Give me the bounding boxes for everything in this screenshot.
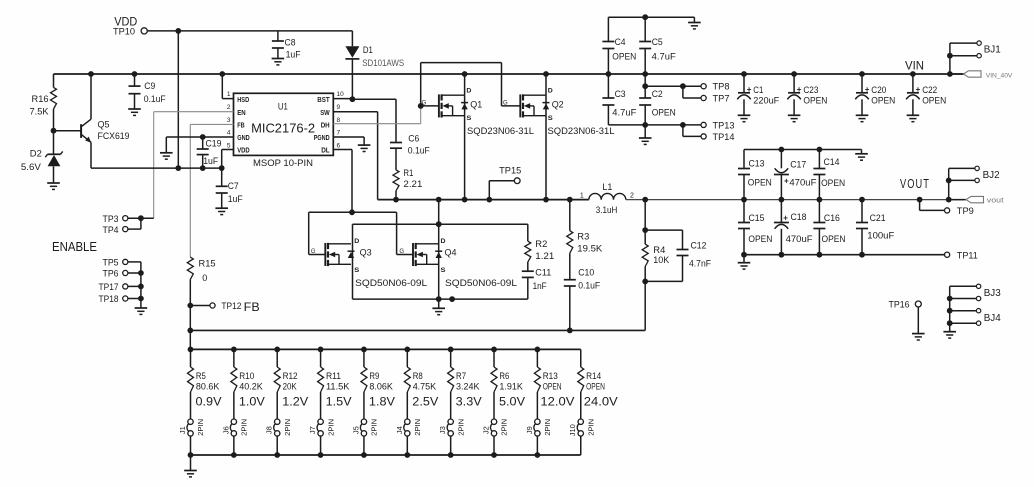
- capacitor C18 470uF: [774, 200, 813, 255]
- svg-text:J2: J2: [482, 426, 491, 434]
- svg-text:100uF: 100uF: [867, 231, 895, 241]
- svg-text:1uF: 1uF: [203, 156, 218, 166]
- resistor R4: [642, 200, 669, 285]
- svg-text:D: D: [548, 87, 553, 94]
- ground (Q3/Q4 source): [432, 299, 445, 315]
- svg-text:C13: C13: [749, 158, 765, 168]
- svg-text:R2: R2: [535, 239, 547, 249]
- test point TP11: [945, 250, 978, 260]
- svg-text:1.0V: 1.0V: [239, 394, 265, 408]
- svg-text:Q3: Q3: [360, 247, 372, 257]
- ground (output bus): [738, 263, 751, 269]
- test point TP6: [103, 269, 128, 279]
- svg-text:J6: J6: [221, 426, 230, 434]
- svg-text:10: 10: [337, 91, 345, 98]
- svg-text:BJ2: BJ2: [983, 170, 1000, 181]
- svg-text:R3: R3: [577, 232, 589, 242]
- svg-text:R5: R5: [196, 371, 206, 381]
- capacitor C9: [129, 74, 167, 109]
- svg-text:12.0V: 12.0V: [540, 394, 574, 408]
- wire source bus: [353, 296, 528, 302]
- svg-text:R12: R12: [283, 371, 298, 381]
- svg-text:7.5K: 7.5K: [30, 107, 49, 117]
- capacitor C17 470uF: [774, 150, 817, 200]
- wire FB rail: [187, 281, 645, 333]
- svg-text:OPEN: OPEN: [612, 52, 636, 62]
- svg-text:R16: R16: [32, 94, 49, 104]
- svg-text:4: 4: [227, 130, 231, 137]
- svg-text:220uF: 220uF: [753, 95, 779, 105]
- wire pin5 VDD: [222, 150, 234, 169]
- svg-text:C19: C19: [206, 139, 222, 149]
- svg-text:C10: C10: [578, 267, 594, 277]
- svg-text:FB: FB: [237, 122, 245, 129]
- jumper J6 2PIN: [221, 419, 248, 455]
- svg-text:J9: J9: [525, 426, 534, 434]
- svg-text:2PIN: 2PIN: [586, 419, 595, 436]
- jumper J7 2PIN: [308, 419, 335, 455]
- test point TP18: [99, 294, 128, 304]
- svg-text:TP4: TP4: [103, 225, 119, 235]
- ground (TP16): [912, 334, 925, 340]
- svg-text:Q1: Q1: [470, 100, 482, 110]
- resistor R6: [491, 349, 523, 419]
- test point TP15: [489, 166, 521, 200]
- svg-text:C2: C2: [652, 89, 663, 99]
- svg-text:C7: C7: [228, 181, 239, 191]
- svg-text:FCX619: FCX619: [98, 131, 130, 141]
- svg-text:7: 7: [337, 130, 341, 137]
- svg-text:9: 9: [337, 104, 341, 111]
- transistor Q1 SQD23N06-31L: [422, 74, 534, 200]
- svg-text:TP14: TP14: [713, 132, 735, 142]
- wire VDD node (Q5 emitter): [91, 165, 225, 171]
- jumper J9 2PIN: [525, 419, 552, 455]
- svg-text:TP13: TP13: [713, 120, 735, 130]
- jumper J3 2PIN: [438, 419, 465, 455]
- svg-text:TP7: TP7: [713, 94, 730, 104]
- svg-text:D: D: [354, 238, 359, 245]
- pin numbers U1: [227, 91, 344, 149]
- svg-text:OPEN: OPEN: [871, 95, 895, 105]
- IC U1 MIC2176-2 controller: [234, 93, 334, 169]
- svg-text:C1: C1: [753, 85, 763, 95]
- wire ladder bottom bus: [188, 452, 581, 458]
- svg-text:1.2V: 1.2V: [282, 394, 308, 408]
- svg-text:S: S: [441, 267, 447, 274]
- svg-text:470uF: 470uF: [789, 177, 817, 187]
- svg-text:C15: C15: [749, 213, 765, 223]
- svg-text:SW: SW: [320, 110, 330, 117]
- svg-text:vout: vout: [987, 197, 1004, 204]
- svg-text:1: 1: [580, 193, 584, 200]
- svg-text:2PIN: 2PIN: [370, 419, 379, 436]
- svg-text:1: 1: [227, 91, 231, 98]
- svg-text:D: D: [466, 87, 471, 94]
- svg-text:C14: C14: [824, 157, 840, 167]
- capacitor C5: [639, 17, 676, 74]
- svg-text:C17: C17: [790, 160, 806, 170]
- ground (output top bus): [855, 154, 868, 160]
- svg-text:OPEN: OPEN: [748, 234, 772, 244]
- svg-text:BJ1: BJ1: [984, 45, 1001, 56]
- inductor L1 3.1uH: [580, 182, 634, 216]
- resistor R5: [188, 349, 220, 419]
- capacitor C13: [738, 150, 772, 200]
- svg-text:TP8: TP8: [713, 82, 730, 92]
- svg-text:HSD: HSD: [237, 97, 249, 104]
- svg-text:U1: U1: [278, 102, 288, 112]
- svg-text:3.1uH: 3.1uH: [596, 205, 618, 216]
- wire TP3/TP4 to EN: [128, 215, 154, 229]
- wire VOUT rail: [626, 197, 964, 203]
- svg-text:0.1uF: 0.1uF: [144, 94, 166, 104]
- capacitor C12: [645, 230, 711, 281]
- capacitor C20 OPEN: [855, 74, 895, 122]
- svg-text:C11: C11: [535, 268, 551, 278]
- wire pin9 SW: [333, 112, 377, 200]
- svg-text:2PIN: 2PIN: [240, 419, 249, 436]
- capacitor C1 220uF: [737, 74, 780, 122]
- resistor R8: [404, 349, 436, 419]
- svg-text:2PIN: 2PIN: [456, 419, 465, 436]
- svg-text:VOUT: VOUT: [900, 176, 930, 191]
- svg-text:OPEN: OPEN: [922, 95, 946, 105]
- capacitor C11: [522, 268, 552, 300]
- svg-text:BJ3: BJ3: [984, 288, 1001, 299]
- svg-text:MSOP 10-PIN: MSOP 10-PIN: [253, 158, 313, 169]
- svg-text:R6: R6: [499, 371, 509, 381]
- svg-text:8: 8: [337, 117, 341, 124]
- svg-text:2PIN: 2PIN: [196, 419, 205, 436]
- svg-text:BJ4: BJ4: [984, 313, 1001, 324]
- capacitor C10: [564, 267, 601, 330]
- svg-text:C4: C4: [615, 37, 626, 47]
- wire VDD rail: [147, 28, 352, 168]
- ground (BJ3/BJ4): [943, 332, 956, 338]
- svg-text:DL: DL: [321, 148, 330, 155]
- wire pin8 DH to gates: [333, 106, 420, 124]
- svg-text:+: +: [783, 214, 788, 223]
- svg-text:OPEN: OPEN: [748, 177, 772, 187]
- resistor R3: [567, 200, 603, 280]
- ground (ladder): [184, 455, 197, 477]
- wire BST to C6: [352, 99, 396, 142]
- wire TP5/6/17/18 chain: [128, 262, 144, 308]
- svg-text:TP3: TP3: [103, 214, 119, 224]
- capacitor C19: [197, 137, 222, 168]
- svg-text:J7: J7: [308, 426, 317, 434]
- connector BJ3: [947, 284, 1001, 301]
- transistor Q4 SQD50N06-09L: [399, 200, 517, 300]
- svg-text:C21: C21: [870, 213, 886, 223]
- svg-text:2PIN: 2PIN: [543, 419, 552, 436]
- svg-text:2PIN: 2PIN: [283, 419, 292, 436]
- svg-text:2.21: 2.21: [403, 179, 422, 189]
- svg-text:TP17: TP17: [99, 282, 119, 292]
- svg-text:2PIN: 2PIN: [500, 419, 509, 436]
- svg-text:SQD50N06-09L: SQD50N06-09L: [445, 278, 517, 289]
- capacitor C7: [216, 168, 243, 208]
- ground (pin7 PGND): [333, 137, 370, 152]
- svg-text:2.5V: 2.5V: [412, 394, 438, 408]
- test point TP7: [701, 94, 730, 104]
- zener diode D2 5.6V: [21, 131, 63, 183]
- wire ladder top bus: [188, 347, 581, 353]
- wire pin6 DL to gates: [333, 150, 352, 213]
- svg-text:R9: R9: [369, 371, 379, 381]
- svg-text:10K: 10K: [653, 255, 669, 265]
- svg-text:1.21: 1.21: [535, 251, 554, 261]
- svg-text:R1: R1: [403, 168, 413, 178]
- svg-text:TP16: TP16: [889, 299, 910, 309]
- ground (C8): [272, 59, 285, 65]
- wire output ground bus: [741, 252, 944, 263]
- svg-text:G: G: [311, 249, 316, 255]
- svg-text:J8: J8: [265, 426, 274, 434]
- jumper J4 2PIN: [395, 419, 422, 455]
- test point TP13: [701, 120, 735, 130]
- junction (R16/D2/Q5 base): [51, 128, 57, 134]
- svg-text:+: +: [747, 85, 752, 94]
- svg-text:OPEN: OPEN: [822, 234, 846, 244]
- wire C13/C17/C14 ground bus: [744, 147, 862, 154]
- svg-text:OPEN: OPEN: [586, 381, 605, 391]
- svg-text:2PIN: 2PIN: [413, 419, 422, 436]
- wire VIN rail: [54, 73, 964, 75]
- wire FB node down: [189, 306, 191, 350]
- wire C4/C5 ground bus: [608, 14, 694, 22]
- diode D1 SD101AWS: [345, 31, 404, 99]
- svg-text:4.7uF: 4.7uF: [652, 52, 677, 62]
- wire drain bus: [353, 221, 528, 227]
- svg-text:19.5K: 19.5K: [577, 243, 602, 253]
- net tag VIN_40V: [950, 71, 1013, 80]
- test point TP9: [920, 200, 974, 216]
- wire pin2 EN: [154, 112, 234, 219]
- jumper J2 2PIN: [482, 419, 509, 455]
- svg-text:D2: D2: [30, 149, 42, 159]
- svg-text:24.0V: 24.0V: [584, 394, 618, 408]
- resistor R15: [187, 257, 215, 305]
- svg-text:TP18: TP18: [99, 294, 119, 304]
- svg-text:5.0V: 5.0V: [499, 394, 525, 408]
- resistor R2: [525, 224, 555, 271]
- svg-text:0.9V: 0.9V: [196, 394, 222, 408]
- svg-text:C9: C9: [144, 81, 155, 91]
- svg-text:G: G: [399, 249, 404, 255]
- test point TP10: [113, 26, 147, 36]
- jumper J8 2PIN: [265, 419, 292, 455]
- jumper J1 2PIN: [178, 419, 205, 455]
- svg-text:80.6K: 80.6K: [196, 381, 220, 391]
- svg-text:G: G: [422, 100, 427, 106]
- svg-text:OPEN: OPEN: [652, 108, 676, 118]
- capacitor C6: [390, 133, 430, 170]
- svg-text:4.7uF: 4.7uF: [612, 108, 637, 118]
- wire SW node rail: [378, 197, 589, 203]
- svg-text:PGND: PGND: [314, 135, 330, 142]
- svg-text:1uF: 1uF: [286, 50, 301, 60]
- svg-text:8.06K: 8.06K: [369, 381, 393, 391]
- connector BJ2: [946, 166, 1000, 199]
- svg-text:MIC2176-2: MIC2176-2: [251, 122, 315, 136]
- svg-text:R10: R10: [239, 371, 254, 381]
- capacitor C16: [813, 200, 845, 255]
- svg-text:C22: C22: [922, 85, 937, 95]
- svg-text:SQD23N06-31L: SQD23N06-31L: [548, 126, 615, 137]
- jumper J10 2PIN: [568, 419, 595, 455]
- wire pin3 FB: [190, 124, 233, 257]
- test point TP17: [99, 282, 128, 292]
- wire TP13/TP14 tap: [608, 122, 701, 136]
- svg-text:J5: J5: [351, 426, 360, 434]
- test point TP8: [701, 82, 730, 92]
- resistor R11: [318, 349, 350, 419]
- svg-text:DH: DH: [321, 122, 330, 129]
- svg-text:C23: C23: [803, 85, 818, 95]
- svg-text:SD101AWS: SD101AWS: [362, 58, 404, 68]
- svg-text:R13: R13: [543, 371, 558, 381]
- test point TP14: [701, 132, 735, 142]
- svg-text:Q2: Q2: [552, 100, 564, 110]
- resistor R13: [534, 349, 561, 419]
- svg-text:OPEN: OPEN: [821, 178, 845, 188]
- svg-text:D1: D1: [363, 45, 373, 55]
- svg-text:2: 2: [227, 104, 231, 111]
- svg-text:EN: EN: [237, 110, 246, 117]
- svg-text:+: +: [916, 85, 921, 94]
- ground (pin4 GND): [160, 137, 173, 159]
- svg-text:R7: R7: [456, 371, 466, 381]
- resistor R16: [30, 74, 57, 131]
- test point TP16: [889, 299, 922, 333]
- test point TP4: [103, 225, 128, 235]
- svg-text:VIN: VIN: [905, 58, 924, 72]
- wire pin1 HSD to VIN: [222, 74, 233, 99]
- svg-text:TP9: TP9: [957, 206, 974, 216]
- net tag vout: [949, 196, 1004, 204]
- svg-text:TP10: TP10: [113, 26, 135, 36]
- ground (C2/C3): [639, 125, 652, 144]
- ground (C9): [128, 109, 141, 115]
- svg-text:5: 5: [227, 142, 231, 149]
- ground (C7): [215, 208, 228, 214]
- resistor R9: [361, 349, 393, 419]
- capacitor C14: [813, 150, 845, 200]
- capacitor C22 OPEN: [906, 74, 946, 122]
- ground (C4/C5 bus): [688, 23, 701, 29]
- svg-text:R4: R4: [653, 245, 665, 255]
- svg-text:4.7nF: 4.7nF: [689, 258, 711, 268]
- capacitor C15: [738, 200, 772, 255]
- svg-text:VDD: VDD: [237, 148, 250, 155]
- junction BST node: [333, 96, 355, 102]
- svg-text:1nF: 1nF: [533, 281, 547, 291]
- svg-text:C6: C6: [408, 133, 419, 143]
- svg-text:0.1uF: 0.1uF: [578, 281, 600, 291]
- svg-text:SQD50N06-09L: SQD50N06-09L: [355, 278, 427, 289]
- svg-text:1uF: 1uF: [228, 194, 243, 204]
- resistor R14: [578, 349, 605, 419]
- svg-text:2: 2: [630, 193, 634, 200]
- svg-text:4.75K: 4.75K: [413, 381, 437, 391]
- svg-text:TP15: TP15: [499, 166, 521, 176]
- resistor R12: [274, 349, 297, 419]
- svg-text:ENABLE: ENABLE: [52, 239, 97, 254]
- svg-text:+: +: [865, 85, 870, 94]
- svg-text:D: D: [441, 238, 446, 245]
- svg-text:1.91K: 1.91K: [499, 381, 523, 391]
- svg-text:C3: C3: [615, 89, 626, 99]
- svg-text:Q5: Q5: [98, 119, 110, 129]
- capacitor C2: [639, 74, 676, 125]
- wire gate jump Q1-Q2: [418, 63, 520, 109]
- svg-text:3.3V: 3.3V: [456, 394, 482, 408]
- test point TP5: [103, 258, 128, 268]
- svg-text:BST: BST: [317, 97, 330, 104]
- svg-text:C12: C12: [691, 240, 707, 250]
- svg-text:GND: GND: [237, 135, 250, 142]
- svg-text:R14: R14: [586, 371, 601, 381]
- svg-text:TP5: TP5: [103, 258, 119, 268]
- transistor Q5 FCX619: [54, 74, 130, 168]
- svg-text:S: S: [466, 115, 472, 122]
- connector BJ4: [947, 299, 1001, 332]
- svg-text:2PIN: 2PIN: [326, 419, 335, 436]
- svg-text:6: 6: [337, 142, 341, 149]
- svg-text:3.24K: 3.24K: [456, 381, 480, 391]
- svg-text:C5: C5: [652, 37, 663, 47]
- capacitor C4: [602, 17, 636, 74]
- ground (D2): [47, 183, 60, 189]
- svg-text:1.5V: 1.5V: [326, 394, 352, 408]
- svg-text:5.6V: 5.6V: [21, 162, 41, 172]
- test point TP3: [103, 214, 128, 224]
- svg-text:+: +: [784, 176, 789, 185]
- svg-text:3: 3: [227, 117, 231, 124]
- transistor Q2 SQD23N06-31L: [503, 74, 614, 200]
- svg-text:G: G: [503, 100, 508, 106]
- resistor R1: [393, 168, 422, 200]
- svg-text:J3: J3: [438, 426, 447, 434]
- wire DL gate run: [309, 209, 413, 254]
- wire TP8/TP7 tap: [645, 83, 701, 98]
- svg-text:S: S: [354, 267, 360, 274]
- svg-text:0.1uF: 0.1uF: [408, 146, 430, 156]
- svg-text:C8: C8: [285, 38, 296, 48]
- ground (TP18): [135, 308, 148, 314]
- svg-text:+: +: [797, 85, 802, 94]
- svg-text:TP12: TP12: [221, 301, 241, 311]
- svg-text:VIN_40V: VIN_40V: [986, 72, 1013, 79]
- wire Q1 gate: [421, 105, 439, 107]
- svg-text:11.5K: 11.5K: [326, 381, 350, 391]
- svg-text:J4: J4: [395, 426, 404, 434]
- junction (rail): [88, 71, 953, 77]
- wire pin4 GND: [166, 134, 233, 140]
- svg-text:Q4: Q4: [445, 247, 457, 257]
- svg-text:R15: R15: [199, 258, 216, 268]
- svg-text:J1: J1: [178, 426, 187, 434]
- resistor R10: [231, 349, 263, 419]
- capacitor C8: [272, 31, 301, 60]
- svg-text:40.2K: 40.2K: [239, 381, 263, 391]
- transistor Q3 SQD50N06-09L: [311, 224, 427, 299]
- connector BJ1: [947, 41, 1001, 74]
- resistor R7: [448, 349, 480, 419]
- capacitor C3: [602, 74, 636, 125]
